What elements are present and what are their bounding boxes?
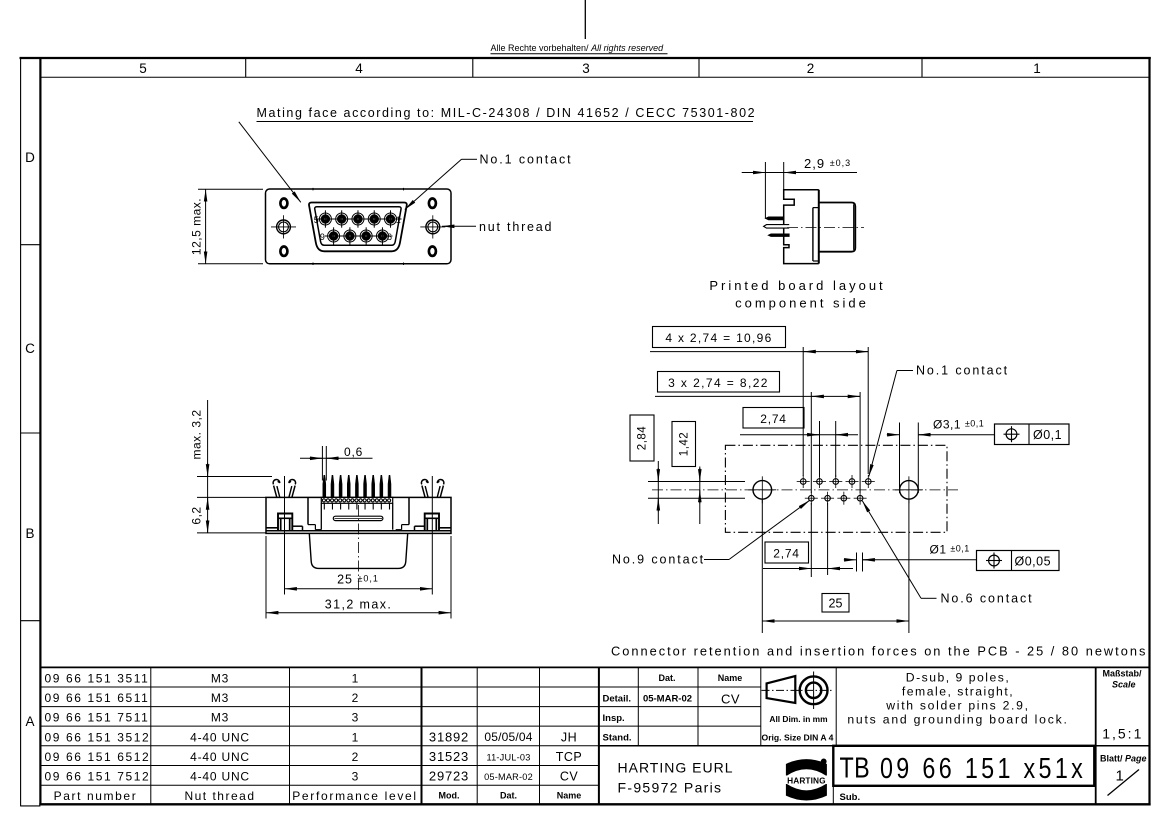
svg-text:Ø0,1: Ø0,1 bbox=[1033, 428, 1062, 442]
side view solder pins bbox=[765, 217, 784, 220]
svg-text:1: 1 bbox=[352, 671, 359, 685]
rear view flange bbox=[266, 497, 451, 533]
svg-text:09 66 151 7512: 09 66 151 7512 bbox=[45, 770, 151, 784]
zone grid dividers bbox=[245, 59, 247, 78]
svg-text:max. 3,2: max. 3,2 bbox=[189, 409, 203, 459]
dimension 25 pcb bbox=[822, 594, 849, 613]
svg-text:TCP: TCP bbox=[556, 750, 583, 764]
tolerance frame true position 0,05 bbox=[977, 551, 1060, 571]
svg-text:31523: 31523 bbox=[429, 749, 469, 764]
svg-text:Nut thread: Nut thread bbox=[184, 789, 255, 803]
svg-text:Mod.: Mod. bbox=[439, 791, 460, 801]
svg-text:All Dim. in mm: All Dim. in mm bbox=[769, 714, 827, 724]
svg-text:No.9 contact: No.9 contact bbox=[612, 553, 705, 567]
pcb centerline horizontal bbox=[652, 489, 958, 491]
board lock foot bbox=[267, 527, 279, 529]
board lock foot bbox=[439, 527, 451, 529]
svg-text:12,5 max.: 12,5 max. bbox=[190, 198, 204, 255]
svg-text:CV: CV bbox=[560, 770, 579, 784]
rear view slot bbox=[333, 516, 383, 520]
rear view insert with pin entries bbox=[320, 503, 322, 529]
svg-text:A: A bbox=[25, 714, 34, 729]
rear view extension lines left bbox=[197, 476, 272, 478]
title block grid bbox=[637, 667, 639, 745]
svg-text:09 66 151 3512: 09 66 151 3512 bbox=[45, 731, 151, 745]
parts table grid bbox=[40, 666, 1149, 668]
grounding clip bbox=[274, 486, 277, 498]
svg-text:Insp.: Insp. bbox=[603, 713, 625, 724]
svg-text:09 66 151 x51x: 09 66 151 x51x bbox=[880, 752, 1086, 785]
svg-text:Orig. Size DIN A 4: Orig. Size DIN A 4 bbox=[762, 733, 834, 743]
side view centerline bbox=[787, 227, 864, 229]
svg-text:female, straight,: female, straight, bbox=[902, 685, 1014, 699]
first angle projection symbol bbox=[767, 676, 796, 703]
svg-text:No.1 contact: No.1 contact bbox=[916, 364, 1009, 378]
svg-text:JH: JH bbox=[561, 731, 577, 745]
svg-text:Connector retention and insert: Connector retention and insertion forces… bbox=[611, 644, 1147, 659]
svg-text:25: 25 bbox=[829, 597, 843, 611]
dimension 12,5 max. bbox=[198, 188, 263, 190]
side view body outline bbox=[784, 190, 819, 264]
svg-text:1: 1 bbox=[352, 731, 359, 745]
dimension 31,2 max. bbox=[265, 536, 267, 619]
svg-text:nuts and grounding board lock.: nuts and grounding board lock. bbox=[847, 713, 1068, 727]
svg-text:0,6: 0,6 bbox=[344, 445, 363, 459]
svg-text:29723: 29723 bbox=[429, 769, 469, 784]
svg-text:with solder pins 2.9,: with solder pins 2.9, bbox=[885, 699, 1029, 713]
svg-text:4-40 UNC: 4-40 UNC bbox=[190, 750, 250, 764]
svg-text:2: 2 bbox=[807, 61, 815, 76]
svg-text:3: 3 bbox=[352, 710, 359, 724]
svg-text:05-MAR-02: 05-MAR-02 bbox=[484, 772, 533, 782]
side view flange edge bbox=[818, 190, 820, 264]
svg-text:Dat.: Dat. bbox=[658, 673, 675, 683]
grounding clip bbox=[440, 486, 443, 498]
svg-text:05/05/04: 05/05/04 bbox=[484, 730, 532, 744]
svg-text:1: 1 bbox=[1033, 61, 1041, 76]
svg-text:1,5:1: 1,5:1 bbox=[1102, 726, 1143, 742]
rear view shell walls bbox=[267, 480, 322, 531]
svg-text:6,2: 6,2 bbox=[189, 506, 203, 524]
svg-text:TB: TB bbox=[840, 751, 871, 784]
svg-text:component side: component side bbox=[735, 296, 869, 311]
svg-text:31892: 31892 bbox=[429, 730, 469, 745]
svg-text:1: 1 bbox=[1116, 768, 1124, 785]
rear view solder pins bbox=[323, 475, 326, 497]
svg-text:Name: Name bbox=[557, 791, 582, 801]
leader to mating face bbox=[239, 122, 301, 203]
contact row centerlines bbox=[316, 218, 402, 220]
dimension 1,42 bbox=[672, 422, 696, 467]
svg-text:3: 3 bbox=[582, 61, 590, 76]
svg-text:3 x 2,74 = 8,22: 3 x 2,74 = 8,22 bbox=[668, 376, 769, 390]
svg-text:9: 9 bbox=[320, 232, 325, 242]
svg-text:M3: M3 bbox=[211, 710, 229, 724]
pcb board outline bbox=[725, 445, 947, 532]
svg-text:Maßstab/: Maßstab/ bbox=[1103, 669, 1143, 679]
svg-text:B: B bbox=[25, 526, 34, 541]
svg-text:Scale: Scale bbox=[1112, 680, 1136, 690]
svg-text:Detail.: Detail. bbox=[603, 694, 632, 705]
pcb mounting holes 3,1 bbox=[753, 481, 772, 500]
svg-text:4: 4 bbox=[355, 61, 363, 76]
svg-text:Printed board layout: Printed board layout bbox=[709, 278, 885, 293]
svg-text:Part number: Part number bbox=[54, 789, 138, 803]
svg-text:3: 3 bbox=[352, 770, 359, 784]
svg-text:09 66 151 3511: 09 66 151 3511 bbox=[45, 671, 150, 685]
dimension 25 +-0,1 bbox=[284, 476, 286, 595]
side view mating shell bbox=[819, 203, 856, 252]
dimension 2,84 bbox=[630, 415, 654, 461]
svg-text:5: 5 bbox=[314, 215, 319, 225]
nut thread holes bbox=[277, 220, 291, 234]
svg-text:Stand.: Stand. bbox=[603, 732, 632, 743]
drawing number cell bbox=[833, 746, 1094, 786]
svg-text:4-40 UNC: 4-40 UNC bbox=[190, 731, 250, 745]
dimension 4 x 2,74 = 10,96 bbox=[653, 327, 786, 348]
dimension 2,74 bottom bbox=[765, 542, 809, 563]
tolerance frame true position 0,1 bbox=[995, 424, 1070, 445]
dimension 2,74 top bbox=[743, 408, 804, 429]
svg-text:1: 1 bbox=[396, 215, 401, 225]
svg-text:31,2 max.: 31,2 max. bbox=[325, 598, 393, 612]
svg-text:11-JUL-03: 11-JUL-03 bbox=[486, 753, 530, 763]
svg-text:CV: CV bbox=[721, 692, 740, 707]
svg-text:No.6 contact: No.6 contact bbox=[941, 592, 1034, 606]
svg-text:2,74: 2,74 bbox=[773, 547, 800, 561]
svg-text:2: 2 bbox=[352, 691, 359, 705]
svg-text:Performance level: Performance level bbox=[292, 789, 418, 803]
svg-text:4 x 2,74 = 10,96: 4 x 2,74 = 10,96 bbox=[665, 331, 772, 345]
svg-text:F-95972 Paris: F-95972 Paris bbox=[618, 780, 723, 796]
svg-text:09 66 151 7511: 09 66 151 7511 bbox=[45, 710, 150, 724]
svg-text:09 66 151 6512: 09 66 151 6512 bbox=[45, 750, 151, 764]
svg-text:HARTING: HARTING bbox=[787, 775, 826, 785]
contacts front view bbox=[319, 213, 331, 225]
svg-text:Blatt/ Page: Blatt/ Page bbox=[1100, 754, 1147, 764]
front view mounting plate bbox=[266, 189, 452, 264]
svg-text:Sub.: Sub. bbox=[840, 792, 861, 803]
svg-text:5: 5 bbox=[139, 61, 147, 76]
rear view centerline bbox=[358, 505, 360, 593]
svg-text:2,74: 2,74 bbox=[760, 412, 787, 426]
svg-text:M3: M3 bbox=[211, 691, 229, 705]
svg-text:4-40 UNC: 4-40 UNC bbox=[190, 770, 250, 784]
svg-text:M3: M3 bbox=[211, 671, 229, 685]
svg-text:Alle Rechte vorbehalten/ All r: Alle Rechte vorbehalten/ All rights rese… bbox=[491, 43, 665, 53]
svg-text:Ø0,05: Ø0,05 bbox=[1015, 555, 1052, 569]
svg-text:09 66 151 6511: 09 66 151 6511 bbox=[45, 691, 150, 705]
svg-text:2,84: 2,84 bbox=[637, 426, 649, 450]
svg-text:D-sub, 9 poles,: D-sub, 9 poles, bbox=[906, 671, 1010, 685]
svg-text:Dat.: Dat. bbox=[500, 791, 517, 801]
mounting slot holes bbox=[280, 199, 287, 208]
svg-text:C: C bbox=[25, 341, 35, 356]
drawing frame bbox=[20, 57, 1151, 59]
svg-text:nut thread: nut thread bbox=[479, 220, 553, 234]
svg-text:HARTING EURL: HARTING EURL bbox=[618, 760, 734, 776]
pcb row extension lines left bbox=[648, 481, 745, 483]
rear view D-shell lower bbox=[309, 533, 407, 568]
svg-text:No.1 contact: No.1 contact bbox=[480, 153, 573, 167]
svg-text:D: D bbox=[25, 150, 35, 165]
trim mark top center bbox=[584, 0, 586, 39]
svg-text:05-MAR-02: 05-MAR-02 bbox=[643, 694, 692, 705]
svg-text:6: 6 bbox=[387, 232, 392, 242]
svg-text:2: 2 bbox=[352, 750, 359, 764]
svg-text:Name: Name bbox=[718, 673, 743, 683]
dimension 3 x 2,74 = 8,22 bbox=[658, 372, 780, 393]
harting logo bbox=[786, 759, 827, 800]
svg-text:1,42: 1,42 bbox=[679, 432, 691, 456]
rear view solder pin stubs bbox=[323, 503, 325, 509]
pcb contact holes bbox=[800, 479, 806, 485]
svg-text:Mating face according to: MIL-: Mating face according to: MIL-C-24308 / … bbox=[257, 106, 757, 120]
D-shell outline front bbox=[309, 203, 407, 252]
